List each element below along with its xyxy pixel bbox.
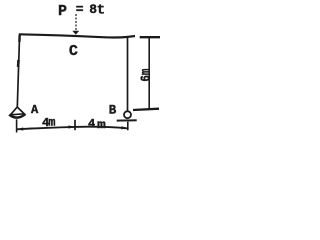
support B ground line: [117, 119, 137, 121]
scan blob on left column: [17, 60, 20, 67]
dimension line bottom: [17, 127, 128, 130]
wire: left column: [17, 35, 19, 107]
dimension arrowhead mid-left: [69, 125, 75, 128]
svg-text:B: B: [109, 104, 117, 118]
support A base crescent: [9, 114, 25, 117]
dimension middle tick: [74, 120, 76, 130]
support B roller circle: [124, 111, 131, 118]
svg-text:4: 4: [88, 117, 95, 131]
dimension arrowhead right: [121, 126, 127, 129]
svg-text:A: A: [31, 103, 39, 117]
svg-text:m: m: [97, 118, 106, 132]
dimension 6m bottom tick: [133, 109, 159, 110]
dimension 6m vertical line: [148, 37, 150, 109]
svg-text:C: C: [69, 43, 78, 60]
svg-text:t: t: [97, 2, 105, 18]
dimension left tick: [16, 119, 18, 132]
svg-text:6m: 6m: [138, 69, 154, 82]
dimension arrowhead left: [17, 127, 23, 130]
svg-text:P: P: [58, 3, 67, 20]
load arrowhead: [72, 31, 79, 35]
svg-text:=: =: [76, 2, 84, 17]
dimension 6m top tick: [140, 36, 160, 38]
thick top of left column: [18, 35, 21, 43]
wire: right column: [127, 37, 129, 111]
svg-text:m: m: [48, 116, 55, 130]
load arrow shaft (dashed): [75, 14, 77, 31]
support A pin triangle: [11, 107, 25, 115]
dimension right tick: [127, 122, 129, 131]
wire: top beam: [19, 34, 135, 37]
